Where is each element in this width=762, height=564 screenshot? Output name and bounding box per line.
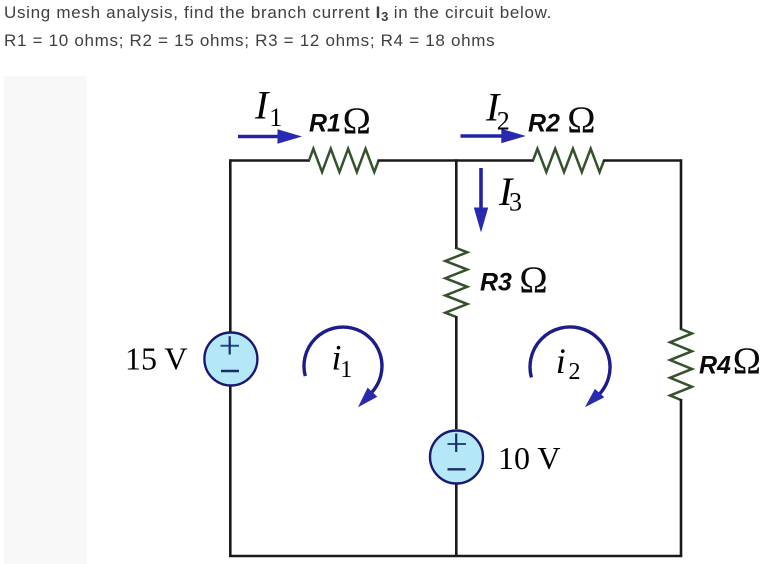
svg-text:1: 1	[340, 357, 352, 383]
wire right upper	[680, 159, 683, 330]
wire middle upper	[455, 159, 458, 249]
svg-text:3: 3	[509, 187, 522, 216]
svg-text:2: 2	[497, 107, 510, 136]
svg-text:Ω: Ω	[733, 341, 761, 383]
wire top-middle segment	[378, 159, 535, 162]
svg-text:I: I	[254, 83, 270, 128]
current arrow I1	[238, 135, 281, 139]
V2 plus sign	[448, 443, 467, 445]
resistor R3	[445, 248, 467, 317]
svg-text:R2: R2	[528, 110, 560, 138]
wire left upper	[229, 159, 232, 332]
svg-text:i: i	[556, 341, 566, 381]
wire right lower	[680, 399, 683, 556]
wire middle lower	[455, 483, 458, 556]
wire top-right segment	[603, 159, 681, 162]
wire bottom	[229, 555, 682, 558]
svg-text:R3: R3	[480, 268, 512, 296]
wire left lower	[229, 385, 232, 556]
resistor R2	[533, 149, 604, 172]
voltage source V1 15V	[204, 333, 257, 386]
svg-text:Ω: Ω	[519, 259, 547, 301]
mesh current arrow i2	[530, 327, 610, 394]
svg-text:15 V: 15 V	[125, 340, 188, 376]
svg-text:Ω: Ω	[567, 100, 595, 142]
current arrow I2	[461, 134, 505, 138]
V2 minus sign	[448, 468, 466, 470]
svg-text:2: 2	[569, 359, 581, 385]
svg-text:10 V: 10 V	[498, 440, 561, 476]
wire middle center	[455, 316, 458, 429]
wire top-left segment	[230, 159, 310, 162]
svg-text:Ω: Ω	[343, 101, 371, 143]
V1 plus sign	[221, 345, 240, 347]
svg-text:R1: R1	[309, 110, 341, 138]
current arrow I3	[479, 168, 483, 210]
V1 minus sign	[221, 370, 239, 372]
voltage source V2 10V	[430, 431, 483, 484]
resistor R1	[309, 149, 379, 172]
mesh current arrow i1	[304, 327, 382, 392]
svg-text:R4: R4	[699, 352, 731, 380]
resistor R4	[670, 329, 692, 400]
svg-text:1: 1	[269, 103, 282, 132]
